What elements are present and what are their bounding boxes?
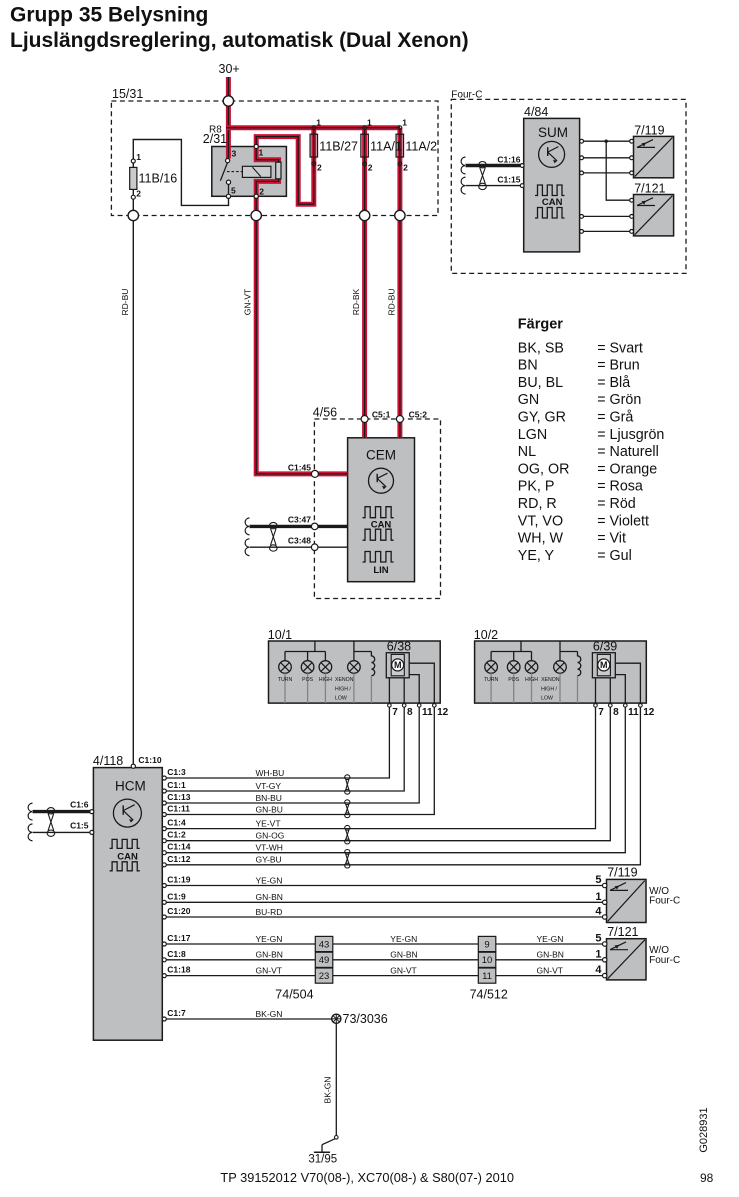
svg-text:YE, Y: YE, Y	[518, 548, 555, 564]
svg-text:1: 1	[367, 118, 372, 128]
svg-text:11: 11	[482, 971, 492, 982]
svg-text:YE-GN: YE-GN	[256, 875, 283, 885]
svg-text:3: 3	[232, 149, 237, 159]
svg-text:M: M	[600, 660, 608, 670]
svg-text:C1:13: C1:13	[167, 792, 190, 802]
svg-text:= Grön: = Grön	[597, 392, 641, 408]
svg-text:= Röd: = Röd	[597, 496, 636, 512]
svg-text:BK, SB: BK, SB	[518, 340, 564, 356]
svg-text:Four-C: Four-C	[451, 90, 482, 101]
svg-text:= Vit: = Vit	[597, 531, 626, 547]
svg-text:23: 23	[319, 971, 330, 982]
svg-text:2: 2	[403, 163, 408, 173]
svg-text:RD, R: RD, R	[518, 496, 557, 512]
svg-text:HIGH /: HIGH /	[335, 686, 351, 692]
svg-text:5: 5	[595, 874, 601, 886]
svg-text:Four-C: Four-C	[649, 896, 680, 907]
svg-text:GN-VT: GN-VT	[256, 965, 282, 975]
svg-text:YE-GN: YE-GN	[390, 934, 417, 944]
svg-text:C1:7: C1:7	[167, 1008, 186, 1018]
svg-text:GN-VT: GN-VT	[390, 965, 416, 975]
svg-text:4/84: 4/84	[524, 105, 548, 119]
svg-text:11A/1: 11A/1	[370, 140, 402, 154]
svg-text:C1:10: C1:10	[138, 755, 161, 765]
svg-text:= Grå: = Grå	[597, 410, 633, 426]
svg-text:YE-GN: YE-GN	[256, 934, 283, 944]
svg-text:C1:20: C1:20	[167, 906, 190, 916]
svg-text:C1:15: C1:15	[497, 175, 520, 185]
svg-text:43: 43	[319, 939, 330, 950]
svg-text:OG, OR: OG, OR	[518, 461, 570, 477]
svg-text:CAN: CAN	[371, 519, 392, 530]
svg-text:10: 10	[482, 955, 493, 966]
svg-text:HIGH: HIGH	[319, 677, 332, 683]
svg-text:LIN: LIN	[373, 565, 388, 576]
svg-text:C1:5: C1:5	[70, 821, 89, 831]
svg-text:2: 2	[259, 187, 264, 197]
svg-text:Grupp 35 Belysning: Grupp 35 Belysning	[10, 3, 208, 26]
svg-text:C5:1: C5:1	[372, 410, 391, 420]
svg-text:YE-VT: YE-VT	[256, 818, 281, 828]
svg-text:1: 1	[259, 148, 264, 158]
svg-text:CAN: CAN	[542, 197, 563, 208]
svg-text:TURN: TURN	[278, 677, 293, 683]
svg-text:C1:2: C1:2	[167, 830, 186, 840]
svg-text:1: 1	[136, 152, 141, 162]
svg-text:6/39: 6/39	[593, 640, 617, 654]
svg-text:XENON: XENON	[335, 677, 354, 683]
svg-text:GY, GR: GY, GR	[518, 410, 566, 426]
svg-text:7: 7	[598, 707, 604, 718]
svg-text:GY-BU: GY-BU	[256, 855, 282, 865]
svg-text:GN-BU: GN-BU	[256, 804, 283, 814]
svg-text:LOW: LOW	[335, 696, 347, 702]
svg-text:8: 8	[613, 707, 619, 718]
svg-text:NL: NL	[518, 444, 536, 460]
svg-text:11B/16: 11B/16	[139, 172, 178, 186]
svg-text:BU, BL: BU, BL	[518, 375, 563, 391]
svg-text:RD-BK: RD-BK	[351, 288, 361, 315]
svg-text:= Brun: = Brun	[597, 358, 640, 374]
svg-text:C1:3: C1:3	[167, 767, 186, 777]
svg-text:12: 12	[643, 707, 655, 718]
svg-text:Four-C: Four-C	[649, 955, 680, 966]
svg-text:8: 8	[407, 707, 413, 718]
svg-text:74/504: 74/504	[275, 988, 313, 1002]
svg-text:C1:14: C1:14	[167, 842, 190, 852]
svg-text:7/119: 7/119	[634, 124, 664, 138]
svg-text:4/118: 4/118	[93, 754, 123, 768]
svg-text:31/95: 31/95	[308, 1154, 337, 1166]
svg-text:= Naturell: = Naturell	[597, 444, 659, 460]
svg-text:HCM: HCM	[115, 779, 146, 794]
svg-text:BU-RD: BU-RD	[256, 907, 283, 917]
svg-text:VT, VO: VT, VO	[518, 513, 563, 529]
svg-text:RD-BU: RD-BU	[386, 289, 396, 316]
svg-text:WH-BU: WH-BU	[256, 768, 285, 778]
svg-text:HIGH /: HIGH /	[541, 686, 557, 692]
svg-text:= Rosa: = Rosa	[597, 479, 643, 495]
svg-text:C1:1: C1:1	[167, 780, 186, 790]
svg-text:C5:2: C5:2	[409, 410, 428, 420]
svg-text:2: 2	[136, 189, 141, 199]
svg-text:98: 98	[700, 1171, 714, 1185]
svg-text:POS: POS	[302, 677, 313, 683]
svg-text:XENON: XENON	[541, 677, 560, 683]
svg-text:LGN: LGN	[518, 427, 547, 443]
svg-text:C1:11: C1:11	[167, 804, 190, 814]
svg-text:= Svart: = Svart	[597, 340, 643, 356]
svg-text:2: 2	[317, 163, 322, 173]
svg-text:BK-GN: BK-GN	[256, 1009, 283, 1019]
svg-text:5: 5	[231, 186, 236, 196]
svg-text:C1:18: C1:18	[167, 965, 190, 975]
svg-text:2: 2	[368, 163, 373, 173]
svg-text:GN-BN: GN-BN	[390, 950, 417, 960]
svg-text:HIGH: HIGH	[525, 677, 538, 683]
svg-text:5: 5	[595, 933, 601, 945]
svg-text:2/31: 2/31	[203, 132, 227, 146]
svg-text:BN-BU: BN-BU	[256, 793, 282, 803]
svg-text:10/2: 10/2	[474, 628, 498, 642]
svg-text:WH, W: WH, W	[518, 531, 564, 547]
svg-text:GN-BN: GN-BN	[537, 950, 564, 960]
svg-text:11A/2: 11A/2	[405, 140, 437, 154]
svg-text:11: 11	[628, 707, 639, 718]
svg-text:7/119: 7/119	[607, 866, 637, 880]
svg-text:TURN: TURN	[484, 677, 499, 683]
svg-text:GN-BN: GN-BN	[256, 950, 283, 960]
svg-text:BK-GN: BK-GN	[323, 1077, 333, 1104]
svg-text:Färger: Färger	[518, 317, 563, 333]
svg-text:C1:17: C1:17	[167, 933, 190, 943]
svg-text:C1:16: C1:16	[497, 155, 520, 165]
svg-text:= Gul: = Gul	[597, 548, 632, 564]
svg-text:1: 1	[316, 118, 321, 128]
svg-text:9: 9	[484, 939, 489, 950]
svg-text:= Orange: = Orange	[597, 461, 657, 477]
svg-text:C1:19: C1:19	[167, 875, 190, 885]
svg-text:VT-WH: VT-WH	[256, 843, 283, 853]
svg-text:BN: BN	[518, 358, 538, 374]
svg-text:SUM: SUM	[538, 125, 568, 140]
svg-text:PK, P: PK, P	[518, 479, 555, 495]
svg-text:4/56: 4/56	[313, 406, 337, 420]
svg-text:C1:4: C1:4	[167, 818, 186, 828]
svg-text:GN-VT: GN-VT	[537, 965, 563, 975]
svg-text:6/38: 6/38	[387, 640, 411, 654]
svg-text:TP 39152012 V70(08-), XC70(08-: TP 39152012 V70(08-), XC70(08-) & S80(07…	[220, 1170, 514, 1185]
svg-text:49: 49	[319, 955, 330, 966]
svg-text:POS: POS	[508, 677, 519, 683]
svg-text:1: 1	[595, 948, 601, 960]
svg-text:GN: GN	[518, 392, 539, 408]
svg-text:CAN: CAN	[117, 852, 138, 863]
svg-text:4: 4	[595, 964, 602, 976]
svg-text:11B/27: 11B/27	[319, 140, 358, 154]
svg-text:1: 1	[595, 891, 601, 903]
svg-text:C3:47: C3:47	[288, 515, 311, 525]
svg-text:73/3036: 73/3036	[343, 1012, 388, 1026]
svg-text:M: M	[394, 660, 402, 670]
svg-text:GN-OG: GN-OG	[256, 831, 285, 841]
svg-text:15/31: 15/31	[112, 87, 143, 101]
svg-text:4: 4	[595, 906, 602, 918]
svg-text:C1:9: C1:9	[167, 891, 186, 901]
svg-text:7: 7	[392, 707, 398, 718]
svg-text:1: 1	[402, 118, 407, 128]
svg-text:11: 11	[422, 707, 433, 718]
svg-text:= Blå: = Blå	[597, 375, 630, 391]
svg-text:C1:8: C1:8	[167, 949, 186, 959]
svg-text:= Violett: = Violett	[597, 513, 649, 529]
svg-text:= Ljusgrön: = Ljusgrön	[597, 427, 664, 443]
svg-text:G028931: G028931	[698, 1107, 710, 1152]
svg-text:C1:45: C1:45	[288, 463, 311, 473]
svg-text:YE-GN: YE-GN	[537, 934, 564, 944]
svg-text:7/121: 7/121	[607, 925, 638, 939]
svg-text:12: 12	[437, 707, 449, 718]
svg-text:CEM: CEM	[366, 448, 396, 463]
svg-text:C1:6: C1:6	[70, 800, 89, 810]
svg-text:10/1: 10/1	[268, 628, 292, 642]
svg-text:RD-BU: RD-BU	[120, 289, 130, 316]
svg-text:30+: 30+	[219, 62, 240, 76]
svg-text:C3:48: C3:48	[288, 536, 311, 546]
svg-text:LOW: LOW	[541, 696, 553, 702]
svg-text:Ljuslängdsreglering, automatis: Ljuslängdsreglering, automatisk (Dual Xe…	[10, 29, 469, 52]
svg-text:GN-BN: GN-BN	[256, 892, 283, 902]
svg-text:VT-GY: VT-GY	[256, 781, 282, 791]
svg-text:7/121: 7/121	[634, 182, 665, 196]
svg-text:C1:12: C1:12	[167, 854, 190, 864]
svg-text:GN-VT: GN-VT	[243, 289, 253, 315]
svg-text:74/512: 74/512	[470, 988, 508, 1002]
